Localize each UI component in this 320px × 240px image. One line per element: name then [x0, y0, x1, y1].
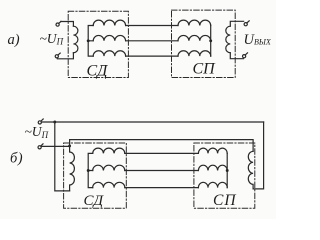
supply wire top (long) [41, 121, 263, 123]
terminal (upper output, circle with tick) [244, 23, 247, 26]
rotor winding of СД (vertical coil, humps right) [73, 26, 78, 53]
line 1 between stators [126, 25, 178, 27]
svg-text:СП: СП [193, 61, 217, 78]
left drop wire [55, 122, 70, 191]
wire rotor bottom to output terminal [230, 53, 243, 59]
supply wire to rotor СД [41, 145, 69, 147]
rotor winding of СП (vertical coil, humps left) [226, 26, 231, 53]
svg-text:а): а) [8, 32, 20, 48]
stator coil 2 of СД bottom [93, 165, 125, 170]
rotor winding of СД bottom (vertical coil, humps right) [70, 146, 75, 191]
junction dot at rotor СД top [68, 144, 71, 147]
junction dot on supply wire [53, 121, 56, 124]
wire from upper terminal to rotor [61, 22, 74, 27]
stator star bus of СД bottom [88, 153, 93, 187]
svg-text:~UП: ~UП [40, 31, 64, 47]
junction dot on СД bottom bus [87, 169, 90, 172]
stator coil 2 of СП [178, 35, 211, 40]
stator coil 1 of СД (humps up) [93, 20, 125, 25]
stator coil 1 of СП (humps up) [178, 20, 211, 25]
stator coil 3 of СП bottom [198, 182, 227, 187]
stator star bus of СД [88, 26, 93, 57]
line 2 bottom [125, 170, 199, 172]
stator coil 1 of СД bottom [93, 148, 125, 153]
stator coil 1 of СП bottom [198, 148, 227, 153]
terminal (lower input, circle with tick) [55, 55, 58, 58]
svg-text:UВЫХ: UВЫХ [244, 32, 272, 48]
terminal (lower output, circle with tick) [243, 55, 246, 58]
rotor winding of СП bottom (vertical coil, humps left) [248, 151, 253, 189]
box СП bottom (dash-dot frame) [194, 143, 255, 208]
box СД bottom (dash-dot frame) [64, 143, 127, 208]
svg-text:~UП: ~UП [25, 124, 49, 140]
box СП (dash-dot frame, top-right) [172, 10, 236, 77]
svg-text:б): б) [10, 151, 23, 167]
wire from rotor bottom to lower terminal [57, 53, 73, 59]
junction dot on СП bus [209, 39, 212, 42]
stator coil 3 of СД bottom [93, 182, 125, 187]
line 1 bottom [125, 152, 199, 154]
stator coil 3 of СД [93, 51, 125, 56]
stator coil 2 of СП bottom [198, 165, 227, 170]
stator coil 3 of СП [178, 51, 211, 56]
svg-text:СП: СП [213, 192, 237, 209]
svg-text:СД: СД [87, 63, 109, 80]
line 3 bottom [125, 187, 199, 189]
line 2 between stators [126, 40, 178, 42]
junction dot on СД bus [87, 39, 90, 42]
line 3 between stators [126, 55, 178, 57]
wire rotor top to output terminal [230, 21, 243, 26]
svg-text:СД: СД [84, 193, 105, 209]
stator star bus of СП bottom [226, 153, 228, 187]
terminal (lower supply, circle with tick) [38, 146, 41, 149]
terminal (upper supply, circle with tick) [38, 121, 41, 124]
terminal (upper input, circle with tick) [56, 23, 59, 26]
stator coil 2 of СД [93, 35, 125, 40]
box СД (dash-dot frame, top-left) [68, 11, 128, 77]
cross wire to СП rotor (over the boxes) [70, 140, 254, 152]
return wire right side [253, 122, 264, 189]
junction dot on СП bottom bus [226, 169, 229, 172]
stator star bus of СП [210, 26, 212, 57]
